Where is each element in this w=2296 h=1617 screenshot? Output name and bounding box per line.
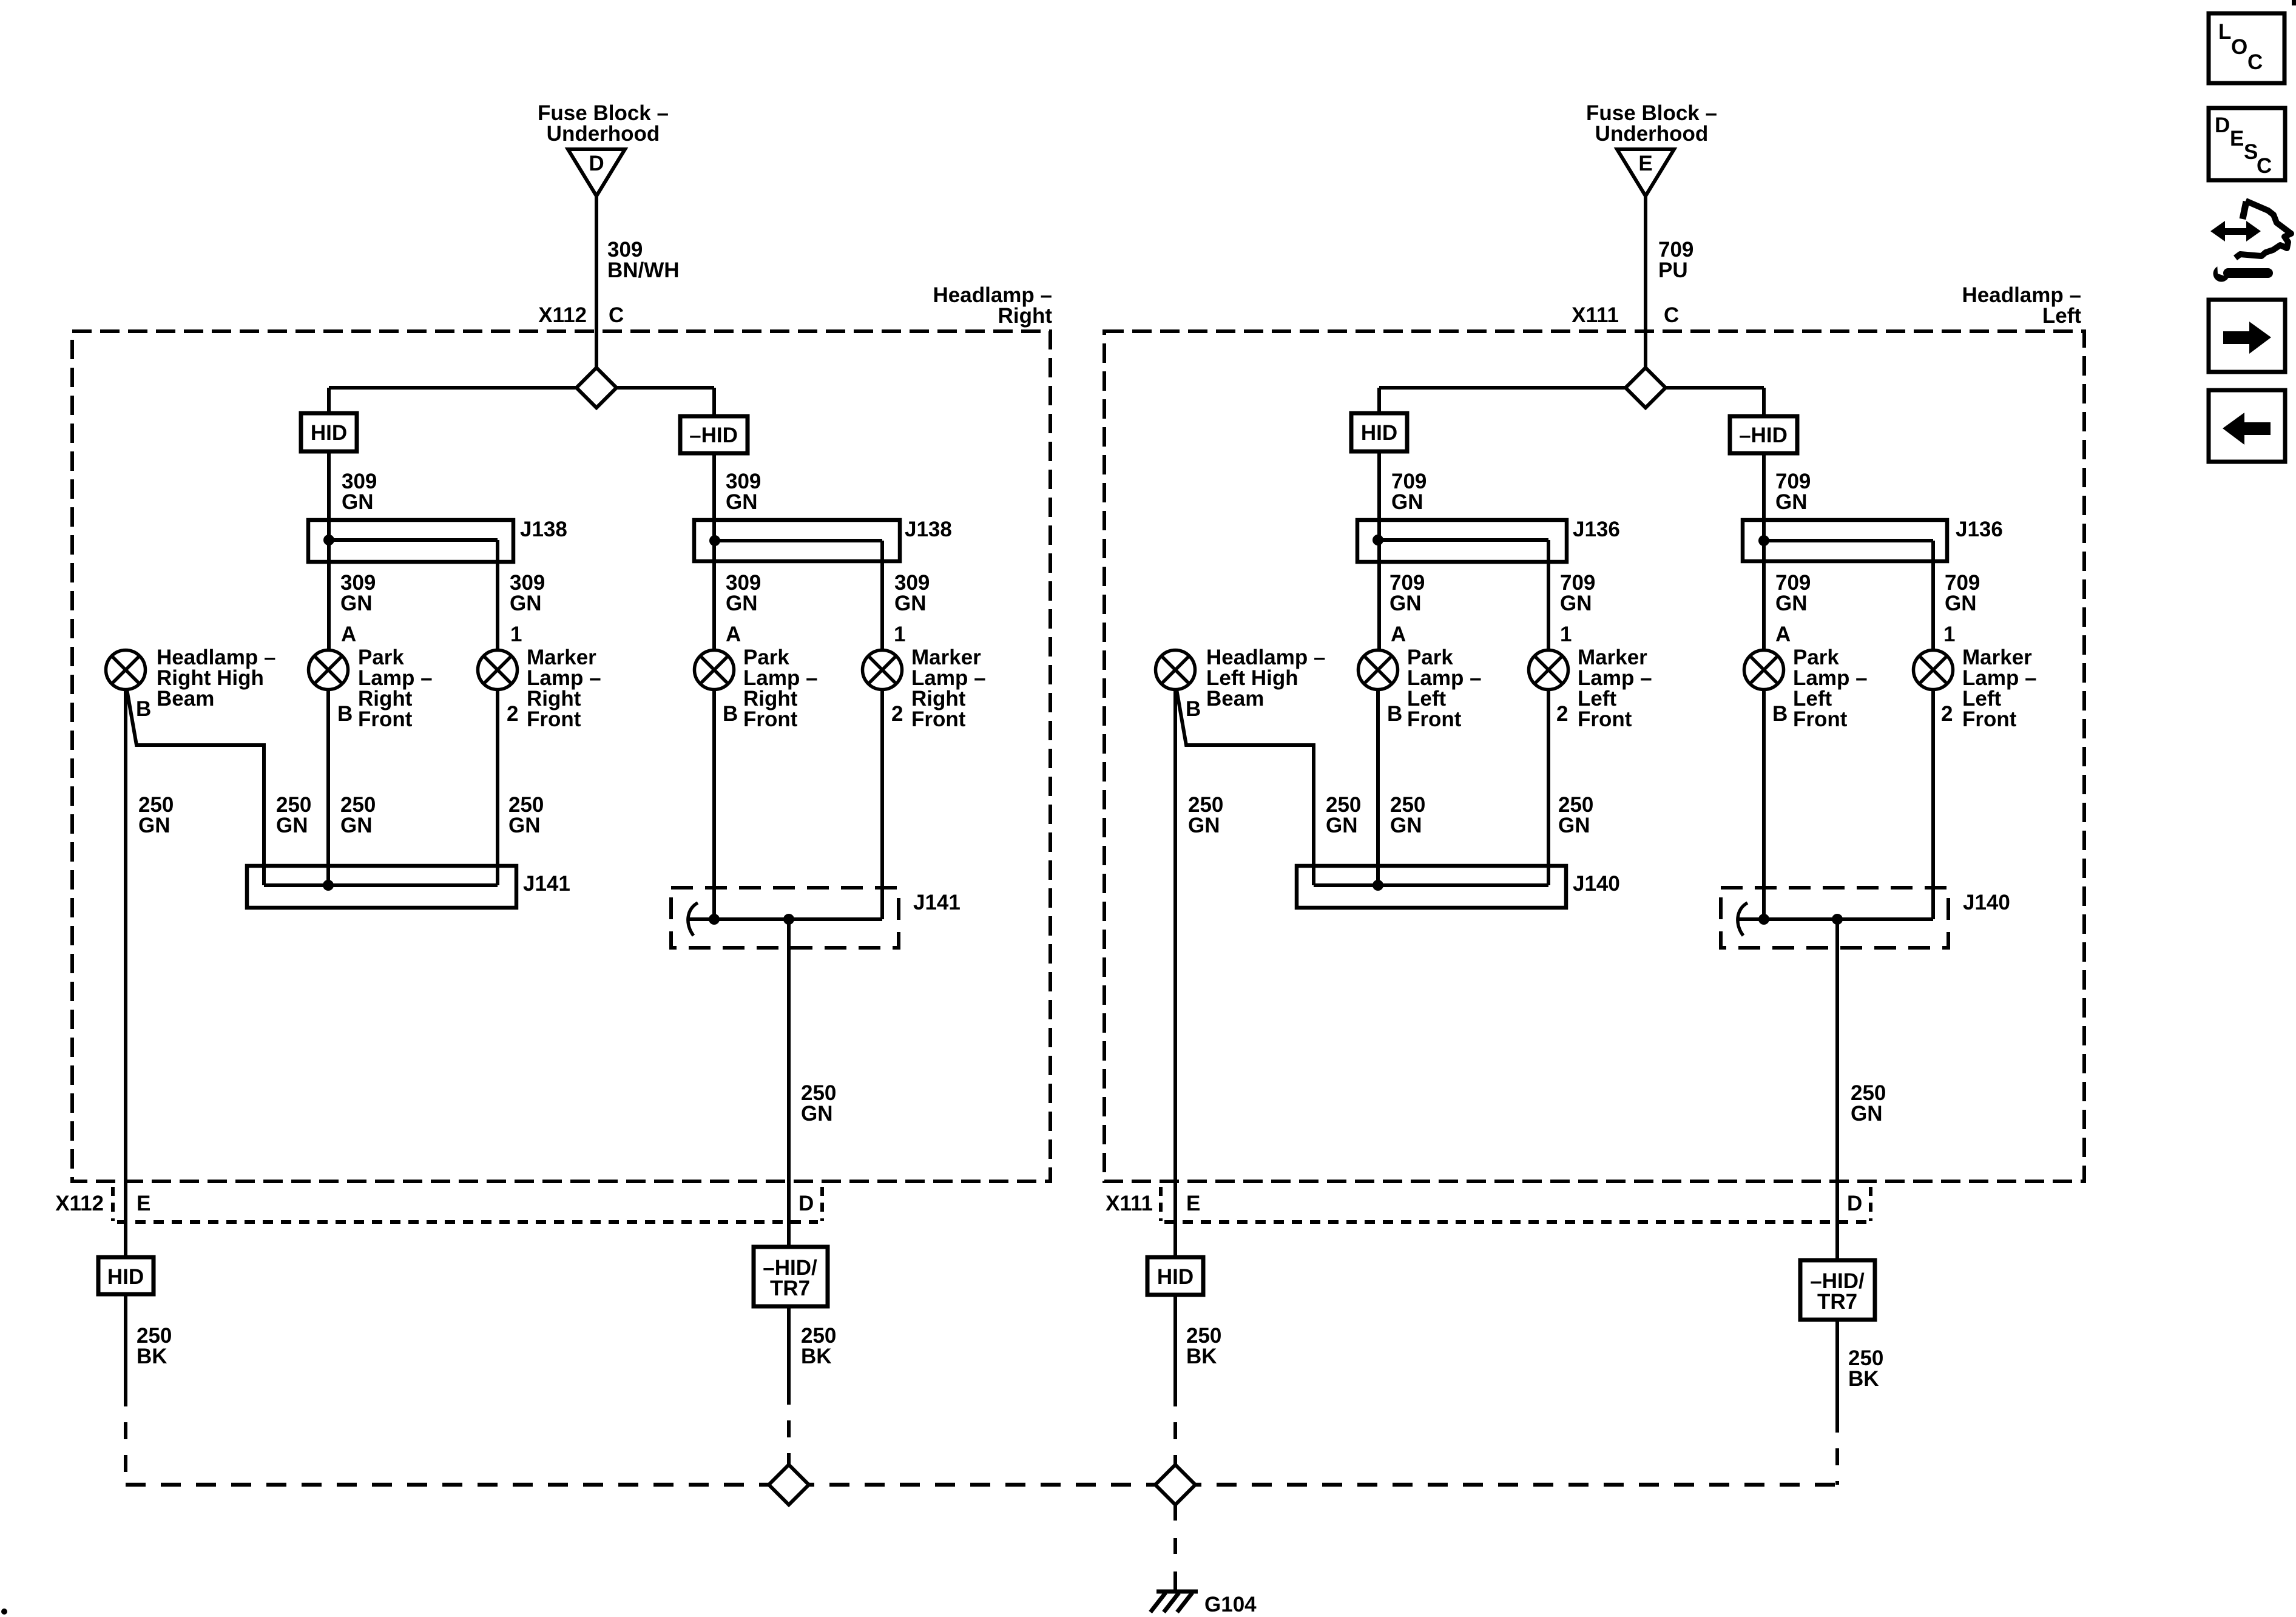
svg-text:GN: GN	[801, 1102, 833, 1126]
svg-text:GN: GN	[340, 814, 373, 837]
wire 709 PU from fuse block E	[1644, 196, 1647, 368]
svg-text:GN: GN	[894, 592, 927, 615]
wire 250 GN park lamp ground	[326, 689, 330, 885]
svg-text:Front: Front	[1578, 707, 1632, 731]
HID option box (left)	[1351, 413, 1407, 451]
svg-text:X112: X112	[55, 1192, 104, 1215]
splice J141 (2) dashed box	[671, 888, 899, 948]
-HID option box	[680, 416, 748, 453]
svg-text:Front: Front	[1962, 707, 2017, 731]
svg-text:TR7: TR7	[1817, 1290, 1857, 1314]
svg-text:Front: Front	[527, 707, 581, 731]
svg-text:HID: HID	[107, 1265, 144, 1289]
svg-text:GN: GN	[276, 814, 308, 837]
svg-text:2: 2	[1941, 702, 1953, 726]
svg-text:E: E	[1186, 1192, 1200, 1215]
svg-text:Front: Front	[911, 707, 966, 731]
svg-text:J141: J141	[523, 872, 570, 896]
svg-text:GN: GN	[1390, 814, 1422, 837]
splice J140 (ground, solid box)	[1297, 866, 1566, 908]
fuse block connector triangle E	[1617, 149, 1674, 196]
wire to HID branch	[327, 388, 331, 413]
svg-text:GN: GN	[138, 814, 171, 837]
HID option box	[301, 413, 357, 451]
ground bus dashed wire	[126, 1483, 1837, 1487]
lamp: Marker Lamp - Right Front (2)	[863, 650, 902, 690]
svg-text:GN: GN	[1558, 814, 1590, 837]
svg-text:C: C	[609, 303, 624, 327]
svg-text:Front: Front	[358, 707, 413, 731]
svg-text:J140: J140	[1963, 891, 2010, 914]
svg-text:A: A	[726, 623, 741, 646]
svg-text:1: 1	[1560, 623, 1572, 646]
wire 309 GN to park lamp right front	[496, 562, 499, 650]
svg-text:Underhood: Underhood	[547, 122, 660, 146]
splice J140 (2) dashed box	[1721, 888, 1948, 948]
svg-text:GN: GN	[340, 592, 373, 615]
svg-text:J140: J140	[1573, 872, 1620, 896]
svg-text:E: E	[1638, 152, 1652, 175]
svg-text:HID: HID	[1157, 1265, 1194, 1289]
splice J136 (-HID branch)	[1743, 520, 1947, 561]
svg-text:Right: Right	[998, 304, 1053, 328]
svg-text:BK: BK	[1848, 1367, 1879, 1391]
svg-text:BK: BK	[1186, 1345, 1217, 1368]
wire to non-HID branch	[712, 388, 716, 416]
svg-text:GN: GN	[1775, 490, 1808, 514]
-HID/TR7 option box	[754, 1247, 828, 1306]
next page arrow icon	[2209, 300, 2285, 372]
lamp: Park Lamp - Right Front (2)	[695, 650, 734, 690]
svg-text:Left: Left	[2042, 304, 2082, 328]
svg-text:GN: GN	[1851, 1102, 1883, 1126]
dashed wire to ground G104	[1173, 1505, 1177, 1582]
lamp: Headlamp - Left High Beam	[1156, 650, 1195, 690]
wire to HID branch (left)	[1377, 388, 1381, 413]
wire labels 309 GN below J138 #1	[340, 571, 376, 615]
svg-text:–HID: –HID	[689, 424, 738, 447]
lamp: Park Lamp - Left Front	[1359, 650, 1398, 690]
DESC icon box	[2209, 108, 2285, 180]
X111 band dotted line	[1164, 1220, 1869, 1224]
svg-text:L: L	[2218, 20, 2231, 44]
wire 250 GN to connector D (left)	[1835, 919, 1839, 1260]
connector X112 exit row: label band	[55, 1192, 814, 1215]
splice diamond (left circuit feed)	[1379, 386, 1764, 390]
X112 band separators	[111, 1187, 115, 1221]
wire 709 GN (HID branch)	[1377, 451, 1381, 650]
wire 709 GN to park lamp left front	[1547, 562, 1550, 650]
svg-text:B: B	[723, 702, 738, 726]
X111 band separators	[1159, 1187, 1163, 1221]
fuse block connector triangle D	[568, 149, 625, 196]
lamp: Marker Lamp - Left Front (2)	[1914, 650, 1953, 690]
wire 709 GN to marker lamp left (branch2)	[1931, 561, 1935, 650]
svg-text:G104: G104	[1204, 1593, 1257, 1616]
svg-text:B: B	[1772, 702, 1788, 726]
Fuse Block - Underhood label (left circuit)	[1586, 101, 1717, 146]
svg-text:B: B	[337, 702, 353, 726]
wire 250 BK	[124, 1294, 127, 1389]
wire to non-HID branch (left)	[1762, 388, 1766, 416]
ground wire 250 GN from high beam pin B	[124, 689, 127, 1257]
svg-text:D: D	[589, 152, 604, 175]
wire 250 BK (left)	[1173, 1295, 1177, 1389]
wire 250 GN park lamp 2 ground	[712, 689, 716, 919]
wire 250 BK (left D exit)	[1835, 1320, 1839, 1416]
page corner mark	[2292, 0, 2296, 5]
bus splice diamond 2	[1155, 1465, 1195, 1505]
svg-text:J141: J141	[913, 891, 961, 914]
wire 309 BN/WH from fuse block D	[595, 196, 598, 368]
wire labels 250 GN row (left box)	[1188, 793, 1223, 837]
dashed wire to bus diamond (left high beam)	[1173, 1389, 1177, 1465]
svg-text:X111: X111	[1106, 1192, 1153, 1215]
-HID/TR7 option box (left)	[1800, 1260, 1875, 1320]
svg-text:GN: GN	[1560, 592, 1592, 615]
svg-text:BK: BK	[801, 1345, 832, 1368]
svg-text:1: 1	[894, 623, 905, 646]
lamp: Marker Lamp - Left Front	[1529, 650, 1568, 690]
svg-text:Beam: Beam	[157, 687, 214, 711]
car diagnostic icon	[2210, 201, 2291, 282]
svg-text:J138: J138	[520, 518, 567, 541]
dashed wire to bus end	[1835, 1416, 1839, 1485]
svg-text:Underhood: Underhood	[1595, 122, 1709, 146]
svg-text:D: D	[1847, 1192, 1862, 1215]
svg-text:S: S	[2244, 140, 2258, 164]
previous page arrow icon	[2209, 390, 2285, 462]
HID option box (ground path)	[98, 1257, 154, 1294]
svg-text:GN: GN	[726, 490, 758, 514]
splice J138 (-HID branch)	[694, 520, 900, 561]
svg-text:GN: GN	[1188, 814, 1220, 837]
branch wire from pin B to splice J141	[127, 689, 264, 885]
svg-text:HID: HID	[1361, 421, 1397, 445]
HID option box (left ground path)	[1147, 1257, 1203, 1295]
svg-text:E: E	[2230, 127, 2244, 150]
svg-text:C: C	[2257, 154, 2272, 178]
connector X112 pin C labels	[538, 303, 624, 327]
svg-text:Front: Front	[1793, 707, 1848, 731]
wire 309 GN (-HID branch)	[712, 453, 716, 650]
svg-text:X112: X112	[538, 303, 587, 327]
Headlamp - Left enclosure dashed box	[1104, 331, 2084, 1181]
svg-text:J138: J138	[905, 518, 952, 541]
LOC icon box	[2209, 13, 2284, 83]
svg-text:BN/WH: BN/WH	[607, 258, 680, 282]
Fuse Block - Underhood label (right circuit)	[538, 101, 669, 146]
svg-text:GN: GN	[1775, 592, 1808, 615]
svg-text:Beam: Beam	[1206, 687, 1264, 711]
svg-text:GN: GN	[342, 490, 374, 514]
wire 250 GN marker lamp 2 ground	[880, 689, 884, 919]
svg-text:GN: GN	[1389, 592, 1422, 615]
svg-text:GN: GN	[726, 592, 758, 615]
svg-text:2: 2	[1556, 702, 1568, 726]
svg-text:J136: J136	[1573, 518, 1620, 541]
svg-text:TR7: TR7	[770, 1277, 810, 1300]
svg-text:A: A	[341, 623, 356, 646]
svg-text:HID: HID	[311, 421, 347, 445]
svg-text:B: B	[136, 697, 151, 721]
svg-text:GN: GN	[1945, 592, 1977, 615]
stray page dot bottom-left	[1, 1609, 7, 1615]
wire 250 GN park lamp left ground	[1376, 689, 1380, 885]
svg-text:X111: X111	[1572, 303, 1619, 327]
svg-text:D: D	[2215, 113, 2230, 137]
lamp: Headlamp - Right High Beam	[106, 650, 146, 690]
ground symbol G104	[1150, 1582, 1198, 1612]
svg-text:1: 1	[1943, 623, 1955, 646]
svg-text:A: A	[1775, 623, 1791, 646]
Headlamp - Left box label	[1962, 283, 2082, 328]
lamp: Park Lamp - Right Front	[309, 650, 348, 690]
svg-text:BK: BK	[137, 1345, 167, 1368]
dashed wire to ground bus	[124, 1389, 127, 1485]
svg-text:GN: GN	[1391, 490, 1423, 514]
svg-text:–HID: –HID	[1739, 424, 1788, 447]
X112 band dotted line	[117, 1220, 818, 1224]
wire 250 BK (D exit)	[787, 1306, 791, 1388]
svg-text:E: E	[137, 1192, 150, 1215]
lamp: Marker Lamp - Right Front	[478, 650, 518, 690]
Headlamp - Right box label	[933, 283, 1053, 328]
lamp: Park Lamp - Left Front (2)	[1744, 650, 1784, 690]
svg-text:O: O	[2231, 35, 2247, 59]
Headlamp - Right enclosure dashed box	[72, 331, 1050, 1181]
wire 709 GN (-HID branch)	[1762, 453, 1766, 650]
wire labels 250 GN row	[138, 793, 174, 837]
wire 250 GN park lamp left 2 ground	[1762, 689, 1766, 919]
wire 309 GN to marker lamp (branch2)	[880, 561, 884, 650]
svg-text:GN: GN	[1326, 814, 1358, 837]
svg-text:PU: PU	[1658, 258, 1688, 282]
svg-text:2: 2	[891, 702, 903, 726]
bus splice diamond 1	[769, 1465, 809, 1505]
splice J138 (HID branch)	[308, 520, 513, 562]
svg-text:Front: Front	[1407, 707, 1462, 731]
ground wire 250 GN from left high beam pin B	[1173, 689, 1177, 1257]
splice J141 (ground, solid box)	[247, 866, 516, 908]
svg-text:2: 2	[507, 702, 518, 726]
wire 309 GN (HID branch)	[327, 451, 331, 650]
wire 250 GN marker lamp left 2 ground	[1931, 689, 1935, 919]
svg-text:1: 1	[510, 623, 522, 646]
svg-text:Front: Front	[743, 707, 798, 731]
svg-text:J136: J136	[1956, 518, 2003, 541]
splice J136 (HID branch)	[1357, 520, 1567, 562]
svg-text:GN: GN	[510, 592, 542, 615]
dashed wire to bus diamond	[787, 1388, 791, 1465]
svg-text:D: D	[799, 1192, 814, 1215]
svg-text:C: C	[2247, 50, 2263, 74]
wire 250 GN to connector D	[787, 919, 791, 1247]
-HID option box (left)	[1730, 416, 1797, 453]
connector X111 pin C labels	[1572, 303, 1679, 327]
wire label 309 BN/WH	[607, 238, 680, 282]
connector X111 exit row: label band	[1106, 1192, 1862, 1215]
wire 250 GN marker lamp ground	[496, 689, 499, 885]
svg-text:A: A	[1391, 623, 1406, 646]
splice diamond (right circuit feed)	[329, 386, 714, 390]
svg-text:C: C	[1664, 303, 1679, 327]
branch wire from pin B to splice J140	[1177, 689, 1314, 885]
svg-text:GN: GN	[508, 814, 541, 837]
wire 250 GN marker lamp left ground	[1547, 689, 1550, 885]
svg-text:B: B	[1186, 697, 1201, 721]
svg-text:B: B	[1387, 702, 1402, 726]
